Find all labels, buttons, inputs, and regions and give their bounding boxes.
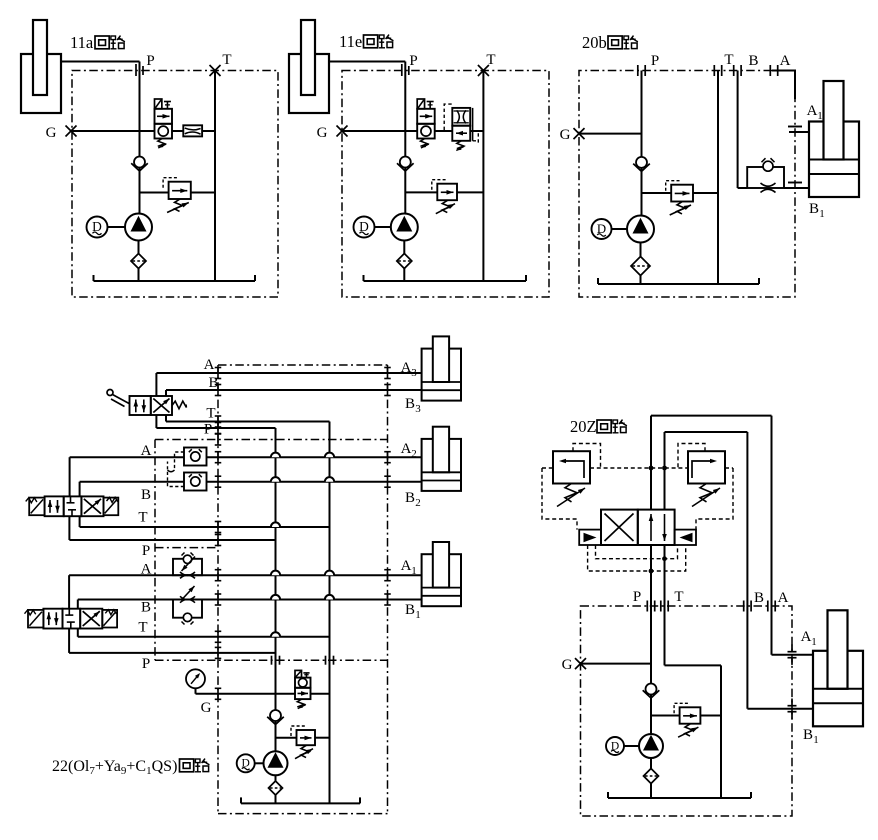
port marks section3 right column circuit 22 bbox=[387, 368, 389, 379]
port B marks circuit 20b bbox=[733, 65, 735, 76]
svg-text:P: P bbox=[146, 53, 154, 69]
wire P line circuit 20b bbox=[641, 71, 643, 216]
svg-text:T: T bbox=[206, 406, 215, 422]
wire pump to filter circuit 11e bbox=[403, 241, 405, 254]
svg-text:22(Ol7+Ya9+C1QS): 22(Ol7+Ya9+C1QS) bbox=[52, 758, 177, 777]
pilot relief valve right circuit 20Z bbox=[688, 451, 725, 483]
port T marks circuit 20Z bbox=[660, 601, 662, 612]
port marks section3 left column circuit 22 bbox=[217, 368, 219, 379]
port B marks circuit 20Z bbox=[743, 601, 745, 612]
wire relief branch circuit 11e bbox=[405, 191, 437, 193]
svg-text:11e: 11e bbox=[339, 32, 362, 51]
wire P line circuit 11e bbox=[404, 62, 406, 214]
pilot cap left circuit 20Z bbox=[579, 530, 601, 545]
relief valve circuit 20Z bbox=[680, 707, 701, 723]
wire G unload line circuit 11e bbox=[342, 130, 417, 132]
enclosure boundary circuit 20b bbox=[579, 71, 795, 298]
svg-text:P: P bbox=[633, 589, 641, 605]
cylinder 1 circuit 22 bbox=[422, 554, 461, 606]
check valve circuit 20b bbox=[633, 164, 642, 172]
svg-text:B: B bbox=[208, 375, 218, 391]
cylinder circuit 20b bbox=[809, 122, 859, 198]
tank line circuit 11e bbox=[364, 280, 527, 282]
suction filter circuit 20b bbox=[631, 257, 650, 276]
cylinder 2 circuit 22 bbox=[422, 439, 461, 491]
check valve circuit 11a bbox=[131, 163, 140, 171]
svg-text:11a: 11a bbox=[70, 33, 94, 52]
enclosure boundary circuit 11e bbox=[342, 71, 549, 298]
svg-text:A: A bbox=[780, 53, 791, 69]
pump circuit 22 bbox=[264, 751, 288, 775]
svg-text:1: 1 bbox=[411, 565, 417, 577]
svg-text:1: 1 bbox=[813, 734, 819, 746]
port marks section1 circuit 22 bbox=[217, 570, 219, 581]
power unit divider circuit 22 bbox=[155, 659, 388, 661]
cylinder (plunger ram) circuit 11a bbox=[21, 54, 61, 113]
check valve circuit 20Z bbox=[643, 690, 652, 698]
wire motor-pump circuit 20b bbox=[612, 228, 628, 230]
flow control valve circuit 11e bbox=[452, 108, 470, 126]
wire B3 line circuit 22 bbox=[166, 389, 422, 391]
svg-text:P: P bbox=[142, 656, 150, 672]
svg-text:T: T bbox=[674, 589, 683, 605]
lever directional valve circuit 22 section3 bbox=[130, 396, 151, 415]
wire filter to tank circuit 22 bbox=[275, 795, 277, 803]
wire T2 line circuit 22 bbox=[79, 516, 81, 527]
svg-text:1: 1 bbox=[811, 636, 817, 648]
svg-text:P: P bbox=[651, 53, 659, 69]
wire G line circuit 20Z bbox=[581, 663, 652, 665]
port G plug X circuit 11e bbox=[337, 126, 348, 137]
cylinder (plunger ram) circuit 11e bbox=[289, 54, 329, 113]
svg-text:B: B bbox=[809, 201, 819, 217]
enclosure boundary circuit 11a bbox=[72, 71, 278, 298]
manifold divider section3-2 circuit 22 bbox=[155, 439, 388, 441]
wire G unload line circuit 11a bbox=[71, 130, 155, 132]
wire valve to flow control circuit 11e bbox=[435, 130, 453, 132]
wire orifice to T circuit 11a bbox=[202, 130, 215, 132]
one-way throttle upper circuit 22 section1 bbox=[173, 559, 202, 575]
svg-text:A: A bbox=[401, 441, 412, 457]
svg-text:A: A bbox=[801, 629, 812, 645]
suction filter circuit 11a bbox=[131, 254, 146, 269]
wire pump to filter circuit 11a bbox=[138, 241, 140, 254]
svg-text:G: G bbox=[46, 125, 57, 141]
pump circuit 11e bbox=[391, 214, 418, 241]
svg-text:B: B bbox=[141, 487, 151, 503]
relief valve circuit 20b bbox=[671, 185, 693, 202]
electric motor D circuit 11a bbox=[87, 217, 108, 238]
svg-text:B: B bbox=[748, 53, 758, 69]
wire A3 line circuit 22 bbox=[156, 372, 421, 374]
port T plug X circuit 11a bbox=[210, 65, 221, 76]
wire B drop line circuit 20Z bbox=[746, 432, 748, 709]
pilot network dashed circuit 20Z bbox=[573, 444, 601, 469]
manifold boundary right column circuit 22 bbox=[387, 365, 389, 814]
wire motor-pump circuit 22 bbox=[255, 762, 264, 764]
svg-text:A: A bbox=[141, 443, 152, 459]
svg-text:A: A bbox=[401, 360, 412, 376]
wire P line circuit 11a bbox=[139, 62, 141, 214]
port A1 marks circuit 20Z bbox=[791, 645, 793, 652]
wire B1 line circuit 22 bbox=[78, 599, 422, 601]
wire T line circuit 20b bbox=[717, 71, 719, 285]
svg-text:T: T bbox=[486, 52, 495, 68]
electric motor D circuit 20b bbox=[592, 219, 612, 239]
wire relief branch circuit 20Z bbox=[651, 715, 680, 717]
port marks section2 columns circuit 22 bbox=[217, 452, 219, 463]
port P power marks circuit 22 bbox=[271, 656, 273, 665]
wire cylinder to port P circuit 11a bbox=[61, 61, 140, 63]
svg-text:1: 1 bbox=[415, 609, 421, 621]
svg-text:P: P bbox=[409, 53, 417, 69]
wire T line circuit 11a bbox=[214, 71, 216, 282]
port A corner solid circuit 20b bbox=[772, 71, 795, 100]
wire gauge unload line circuit 22 bbox=[196, 693, 296, 695]
svg-text:A: A bbox=[401, 558, 412, 574]
electric motor D circuit 20Z bbox=[606, 737, 624, 755]
svg-text:20Z: 20Z bbox=[570, 417, 597, 436]
svg-text:G: G bbox=[317, 125, 328, 141]
svg-text:A: A bbox=[778, 590, 789, 606]
pilot cap right circuit 20Z bbox=[675, 530, 696, 545]
wire A1 into cylinder circuit 20b bbox=[789, 131, 809, 133]
wire pump to filter circuit 20Z bbox=[650, 758, 652, 769]
spring lever valve circuit 22 section3 bbox=[172, 401, 186, 409]
one-way throttle valve circuit 20b bbox=[747, 167, 784, 188]
pilot drain loops dashed circuit 20Z bbox=[596, 545, 678, 559]
svg-text:A: A bbox=[204, 357, 215, 373]
wire B1 into cylinder circuit 20b bbox=[784, 187, 809, 189]
junction dots drain circuit 20Z bbox=[662, 556, 667, 561]
tank line circuit 11a bbox=[94, 280, 256, 282]
svg-text:B: B bbox=[405, 490, 415, 506]
pressure gauge circuit 22 bbox=[186, 669, 205, 688]
svg-text:A: A bbox=[141, 562, 152, 578]
port T power marks circuit 22 bbox=[325, 656, 327, 665]
svg-text:T: T bbox=[222, 52, 231, 68]
solenoid unloading valve circuit 11e bbox=[417, 99, 424, 109]
wire P1 line circuit 22 bbox=[68, 629, 70, 653]
wire A1 line circuit 22 bbox=[69, 574, 422, 576]
wire B2 line circuit 22 bbox=[80, 481, 422, 483]
svg-text:1: 1 bbox=[819, 208, 825, 220]
svg-text:B: B bbox=[141, 600, 151, 616]
check valve circuit 11e bbox=[397, 163, 406, 171]
svg-text:2: 2 bbox=[415, 497, 421, 509]
port T marks circuit 20b bbox=[713, 65, 715, 76]
fixed orifice circuit 11a bbox=[183, 125, 202, 136]
variable throttle middle circuit 22 section1 bbox=[181, 586, 195, 601]
svg-text:3: 3 bbox=[415, 403, 421, 415]
wire P3 line circuit 22 bbox=[155, 415, 157, 428]
wire P riser circuit 20Z bbox=[650, 416, 652, 510]
svg-text:B: B bbox=[754, 590, 764, 606]
pump circuit 20Z bbox=[639, 734, 663, 758]
manifold divider section2-1 circuit 22 bbox=[155, 547, 218, 549]
svg-text:B: B bbox=[405, 602, 415, 618]
manifold boundary top edge circuit 22 bbox=[218, 364, 388, 366]
manual lever circuit 22 section3 bbox=[107, 390, 113, 396]
pilot check valve upper circuit 22 section2 bbox=[184, 448, 207, 466]
svg-text:20b: 20b bbox=[582, 33, 607, 52]
manifold inner left column circuit 22 bbox=[154, 440, 156, 661]
wire P2 line circuit 22 bbox=[68, 516, 70, 540]
wire filter to tank circuit 11a bbox=[138, 269, 140, 282]
pump circuit 20b bbox=[627, 216, 654, 243]
wire A2 line circuit 22 bbox=[70, 456, 422, 458]
wire P trunk circuit 22 bbox=[275, 428, 277, 751]
wire pump to filter circuit 22 bbox=[275, 775, 277, 781]
manifold boundary left column circuit 22 bbox=[217, 365, 219, 814]
svg-text:2: 2 bbox=[411, 448, 417, 460]
port marks T2 P2 circuit 22 bbox=[217, 522, 219, 533]
wire filter to tank circuit 20b bbox=[640, 276, 642, 285]
port B1 coupler bars circuit 20b bbox=[788, 182, 802, 184]
svg-text:G: G bbox=[201, 700, 212, 716]
svg-text:B: B bbox=[803, 727, 813, 743]
port G plug X circuit 20b bbox=[574, 128, 585, 139]
solenoid unloading valve circuit 22 bbox=[295, 670, 302, 677]
suction filter circuit 11e bbox=[397, 254, 412, 269]
pilot lines dashed circuit 22 section2 bbox=[168, 452, 185, 487]
svg-text:A: A bbox=[807, 103, 818, 119]
wire T riser circuit 20Z bbox=[664, 432, 666, 510]
svg-text:3: 3 bbox=[411, 367, 417, 379]
svg-text:P: P bbox=[204, 422, 212, 438]
one-way throttle lower circuit 22 section1 bbox=[173, 600, 202, 618]
svg-text:T: T bbox=[138, 620, 147, 636]
wire pump to filter circuit 20b bbox=[640, 243, 642, 257]
wire B line circuit 20b bbox=[737, 71, 739, 189]
tank line circuit 22 bbox=[241, 802, 360, 804]
pilot line dashed flow control circuit 11e bbox=[444, 104, 452, 130]
wire T3 line circuit 22 bbox=[165, 415, 167, 422]
electric motor D circuit 11e bbox=[354, 217, 375, 238]
wire flow control to T circuit 11e bbox=[470, 130, 483, 132]
wire filter to tank circuit 11e bbox=[403, 269, 405, 282]
pilot check valve lower circuit 22 section2 bbox=[184, 473, 207, 491]
wire T1 line circuit 22 bbox=[77, 629, 79, 637]
port G plug X circuit 11a bbox=[66, 126, 77, 137]
port G plug X circuit 20Z bbox=[575, 658, 586, 669]
wire G line circuit 20b bbox=[579, 133, 642, 135]
wire P supply down circuit 20Z bbox=[650, 545, 652, 734]
port A marks circuit 20Z bbox=[767, 601, 769, 612]
port B1 marks circuit 20Z bbox=[791, 699, 793, 706]
port T plug X circuit 11e bbox=[478, 65, 489, 76]
svg-text:B: B bbox=[405, 396, 415, 412]
port A marks circuit 20b bbox=[769, 65, 771, 76]
svg-text:1: 1 bbox=[817, 110, 823, 122]
wire motor-pump circuit 20Z bbox=[624, 745, 639, 747]
pilot operated directional valve circuit 20Z bbox=[601, 510, 638, 545]
solenoid directional valve circuit 22 section2 bbox=[29, 498, 44, 516]
suction filter circuit 22 bbox=[269, 781, 283, 795]
relief valve circuit 22 bbox=[297, 730, 316, 745]
port P marks circuit 11a bbox=[135, 64, 137, 76]
wire relief branch circuit 22 bbox=[276, 737, 297, 739]
junction dots pilot circuit 20Z bbox=[649, 466, 654, 471]
enclosure boundary circuit 20Z bbox=[581, 606, 793, 816]
wire valve to orifice circuit 11a bbox=[172, 130, 183, 132]
wire T return down circuit 20Z bbox=[664, 545, 666, 665]
port P marks circuit 20b bbox=[637, 65, 639, 76]
svg-text:G: G bbox=[560, 127, 571, 143]
wire filter to tank circuit 20Z bbox=[650, 784, 652, 799]
port A1 coupler bars circuit 20b bbox=[788, 126, 802, 128]
wire A drop line circuit 20Z bbox=[771, 416, 773, 655]
wire cylinder to port P circuit 11e bbox=[329, 61, 405, 63]
svg-text:T: T bbox=[724, 52, 733, 68]
svg-text:G: G bbox=[562, 657, 573, 673]
cylinder circuit 20Z bbox=[813, 651, 863, 727]
svg-text:T: T bbox=[138, 510, 147, 526]
wire T line circuit 11e bbox=[482, 71, 484, 282]
wire motor-pump circuit 11a bbox=[108, 226, 126, 228]
port P marks circuit 11e bbox=[401, 64, 403, 76]
pilot relief valve left circuit 20Z bbox=[553, 451, 590, 483]
tank line circuit 20Z bbox=[608, 797, 751, 799]
relief valve circuit 11a bbox=[169, 182, 191, 199]
solenoid unloading valve circuit 11a bbox=[155, 99, 162, 109]
svg-text:P: P bbox=[142, 543, 150, 559]
cylinder 3 circuit 22 bbox=[422, 349, 461, 401]
relief valve circuit 11e bbox=[437, 184, 457, 201]
suction filter circuit 20Z bbox=[644, 769, 659, 784]
wire relief branch circuit 11a bbox=[140, 192, 169, 194]
electric motor D circuit 22 bbox=[237, 754, 255, 772]
wire motor-pump circuit 11e bbox=[375, 226, 391, 228]
manifold boundary bottom edge circuit 22 bbox=[218, 813, 388, 815]
wire unloader to T trunk circuit 22 bbox=[311, 693, 330, 695]
pump circuit 11a bbox=[125, 214, 152, 241]
port P marks circuit 20Z bbox=[646, 601, 648, 612]
check valve circuit 22 bbox=[267, 717, 276, 725]
solenoid directional valve circuit 22 section1 bbox=[28, 610, 43, 628]
tank line circuit 20b bbox=[598, 283, 759, 285]
wire relief branch circuit 20b bbox=[642, 192, 672, 194]
wire T trunk circuit 22 bbox=[329, 422, 331, 804]
